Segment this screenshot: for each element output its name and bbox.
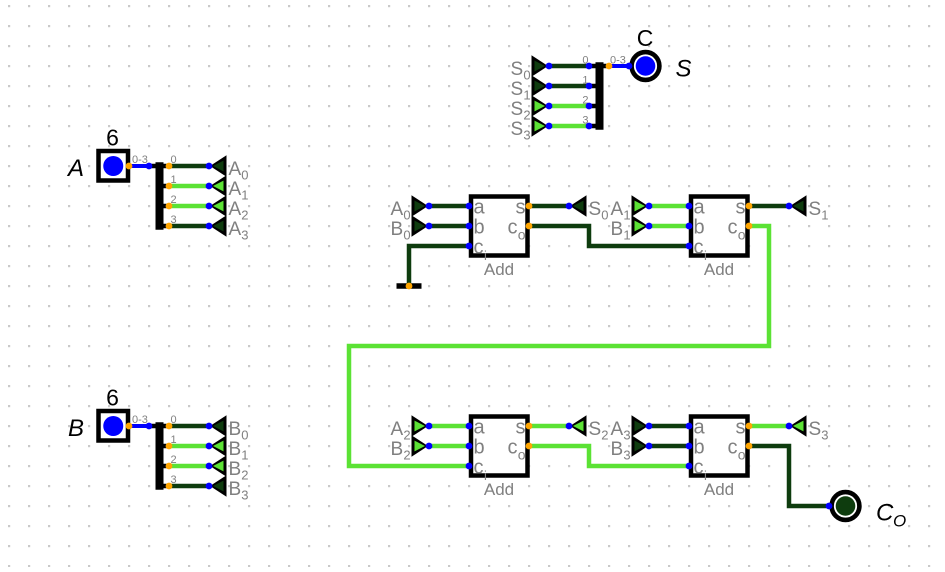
wire tunnel B2 to U3.b <box>429 444 469 449</box>
svg-text:A: A <box>229 199 242 220</box>
tunnel A2 <box>391 415 429 442</box>
svg-text:S: S <box>511 79 524 100</box>
svg-text:B: B <box>229 439 242 460</box>
wire ground to U1.ci <box>409 246 469 284</box>
svg-text:S: S <box>589 199 602 220</box>
svg-text:A: A <box>611 199 624 220</box>
wire splitter bit1 to tunnel A1 <box>169 184 209 189</box>
svg-text:2: 2 <box>241 468 248 483</box>
svg-text:Add: Add <box>484 480 514 499</box>
tunnel B0 <box>391 215 429 242</box>
svg-text:2: 2 <box>403 428 410 443</box>
svg-text:B: B <box>611 439 624 460</box>
splitter A 0-3 <box>132 154 177 230</box>
bus wire merger to output S <box>609 64 629 68</box>
tunnel S1 <box>790 195 829 222</box>
tunnel A1 <box>210 175 249 202</box>
tunnel A0 <box>391 195 429 222</box>
wire tunnel B3 to U4.b <box>649 444 689 449</box>
svg-text:1: 1 <box>623 208 630 223</box>
input A (value 6) <box>99 151 129 181</box>
svg-text:6: 6 <box>106 385 119 411</box>
svg-text:c: c <box>508 217 518 239</box>
svg-text:1: 1 <box>623 228 630 243</box>
svg-text:2: 2 <box>523 108 530 123</box>
tunnel B2 <box>210 455 249 482</box>
wire splitter bit3 to tunnel A3 <box>169 224 209 229</box>
bus wire B to splitter <box>129 424 149 428</box>
svg-text:c: c <box>694 457 704 479</box>
wire splitter bit2 to tunnel A2 <box>169 204 209 209</box>
svg-text:b: b <box>694 437 705 459</box>
wire U3.co to U4.ci <box>529 446 689 466</box>
svg-text:3: 3 <box>821 428 828 443</box>
svg-text:S: S <box>809 419 822 440</box>
svg-text:s: s <box>736 197 746 219</box>
svg-text:0: 0 <box>403 208 410 223</box>
svg-text:3: 3 <box>623 428 630 443</box>
svg-text:0-3: 0-3 <box>132 154 148 166</box>
svg-text:a: a <box>694 417 706 439</box>
svg-text:A: A <box>611 419 624 440</box>
tunnel A3 <box>611 415 649 442</box>
svg-text:2: 2 <box>403 448 410 463</box>
svg-text:S: S <box>511 119 524 140</box>
wire S3 to merger <box>549 124 589 129</box>
svg-text:o: o <box>518 447 526 463</box>
tunnel B3 <box>611 435 649 462</box>
wire U2.co to U3.ci (carry loop) <box>349 226 769 466</box>
tunnel S3 <box>790 415 829 442</box>
svg-text:B: B <box>229 419 242 440</box>
svg-text:1: 1 <box>241 188 248 203</box>
svg-text:C: C <box>637 25 654 51</box>
svg-text:S: S <box>511 99 524 120</box>
svg-text:Add: Add <box>484 260 514 279</box>
tunnel S3 <box>511 115 549 142</box>
svg-text:o: o <box>738 227 746 243</box>
tunnel A3 <box>210 215 249 242</box>
svg-text:s: s <box>516 197 526 219</box>
tunnel A1 <box>611 195 649 222</box>
tunnel B1 <box>210 435 249 462</box>
wire splitter bit0 to tunnel B0 <box>169 424 209 429</box>
input B (value 6) <box>99 411 129 441</box>
tunnel S2 <box>570 415 609 442</box>
svg-text:C: C <box>876 500 894 527</box>
svg-text:b: b <box>694 217 705 239</box>
full adder U3 <box>471 417 528 500</box>
tunnel S2 <box>511 95 549 122</box>
output pins (orange dots) <box>126 63 753 490</box>
svg-text:A: A <box>391 419 404 440</box>
svg-text:A: A <box>229 159 242 180</box>
wire tunnel A2 to U3.a <box>429 424 469 429</box>
tunnel B3 <box>210 475 249 502</box>
tunnel B0 <box>210 415 249 442</box>
svg-text:c: c <box>728 217 738 239</box>
wire U2.s to tunnel S1 <box>749 204 789 209</box>
svg-text:1: 1 <box>821 208 828 223</box>
svg-text:6: 6 <box>106 125 119 151</box>
svg-text:c: c <box>508 437 518 459</box>
svg-text:S: S <box>676 56 692 83</box>
svg-text:c: c <box>474 457 484 479</box>
full adder U2 <box>691 197 748 280</box>
svg-text:2: 2 <box>601 428 608 443</box>
svg-text:B: B <box>391 439 404 460</box>
wire U4.s to tunnel S3 <box>749 424 789 429</box>
svg-text:B: B <box>229 459 242 480</box>
svg-text:S: S <box>589 419 602 440</box>
svg-text:s: s <box>736 417 746 439</box>
svg-text:b: b <box>474 217 485 239</box>
svg-text:B: B <box>68 415 84 442</box>
wire splitter bit0 to tunnel A0 <box>169 164 209 169</box>
wire U3.s to tunnel S2 <box>529 424 569 429</box>
label C_O <box>876 500 906 531</box>
splitter B 0-3 <box>132 414 177 490</box>
svg-text:A: A <box>391 199 404 220</box>
wire U1.s to tunnel S0 <box>529 204 569 209</box>
wire tunnel B0 to U1.b <box>429 224 469 229</box>
wire S2 to merger <box>549 104 589 109</box>
svg-text:1: 1 <box>241 448 248 463</box>
svg-text:0: 0 <box>523 68 530 83</box>
svg-text:Add: Add <box>704 480 734 499</box>
svg-text:0: 0 <box>241 168 248 183</box>
wire S0 to merger <box>549 64 589 69</box>
svg-text:c: c <box>694 237 704 259</box>
svg-text:1: 1 <box>523 88 530 103</box>
tunnel S0 <box>570 195 609 222</box>
wire splitter bit3 to tunnel B3 <box>169 484 209 489</box>
tunnel B1 <box>611 215 649 242</box>
svg-text:3: 3 <box>241 228 248 243</box>
wire S1 to merger <box>549 84 589 89</box>
svg-text:3: 3 <box>623 448 630 463</box>
svg-text:A: A <box>229 219 242 240</box>
svg-text:o: o <box>518 227 526 243</box>
svg-text:3: 3 <box>523 128 530 143</box>
wire tunnel A0 to U1.a <box>429 204 469 209</box>
svg-text:B: B <box>611 219 624 240</box>
svg-text:c: c <box>728 437 738 459</box>
merger S 0-3 <box>582 55 626 130</box>
wire splitter bit1 to tunnel B1 <box>169 444 209 449</box>
full adder U1 <box>471 197 528 280</box>
svg-text:a: a <box>474 417 486 439</box>
wire tunnel B1 to U2.b <box>649 224 689 229</box>
svg-text:O: O <box>893 512 906 531</box>
svg-text:a: a <box>694 197 706 219</box>
svg-text:B: B <box>391 219 404 240</box>
svg-text:0: 0 <box>241 428 248 443</box>
input pins (blue dots) <box>146 63 833 510</box>
tunnel S1 <box>511 75 549 102</box>
tunnel S0 <box>511 55 549 82</box>
svg-text:2: 2 <box>241 208 248 223</box>
ground <box>397 283 422 289</box>
svg-text:b: b <box>474 437 485 459</box>
svg-text:0: 0 <box>403 228 410 243</box>
tunnel A0 <box>210 155 249 182</box>
output C_O <box>832 492 860 520</box>
wire tunnel A3 to U4.a <box>649 424 689 429</box>
svg-text:c: c <box>474 237 484 259</box>
bus wire A to splitter <box>129 164 149 168</box>
output S <box>632 52 660 80</box>
svg-text:B: B <box>229 479 242 500</box>
svg-text:A: A <box>229 179 242 200</box>
full adder U4 <box>691 417 748 500</box>
svg-text:A: A <box>66 155 84 182</box>
tunnel A2 <box>210 195 249 222</box>
svg-text:Add: Add <box>704 260 734 279</box>
wire splitter bit2 to tunnel B2 <box>169 464 209 469</box>
wire U1.co to U2.ci <box>529 226 689 246</box>
svg-text:S: S <box>809 199 822 220</box>
svg-text:0: 0 <box>601 208 608 223</box>
svg-text:S: S <box>511 59 524 80</box>
tunnel B2 <box>391 435 429 462</box>
wire U4.co to output C_O <box>749 446 829 506</box>
wire tunnel A1 to U2.a <box>649 204 689 209</box>
svg-text:0-3: 0-3 <box>132 414 148 426</box>
svg-text:s: s <box>516 417 526 439</box>
svg-text:a: a <box>474 197 486 219</box>
svg-text:o: o <box>738 447 746 463</box>
svg-text:3: 3 <box>241 488 248 503</box>
